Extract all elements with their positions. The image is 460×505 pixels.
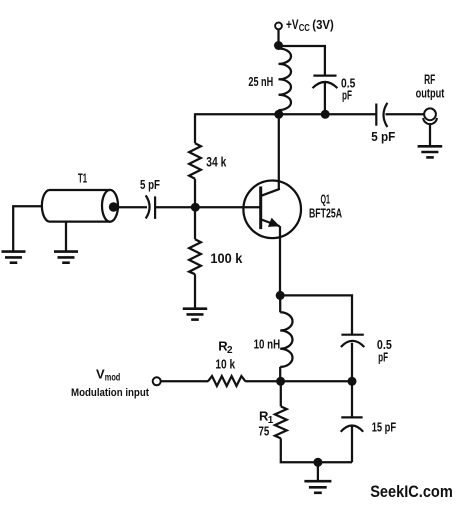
capacitor C2 5 pF (straight plate) xyxy=(154,196,156,219)
wire: base node to transistor base xyxy=(196,206,260,208)
svg-text:V: V xyxy=(96,366,105,381)
wire: T1 bottom shield lead xyxy=(65,222,67,251)
svg-text:5 pF: 5 pF xyxy=(371,129,395,144)
svg-text:5 pF: 5 pF xyxy=(140,178,160,192)
node: base junction dot xyxy=(191,203,200,212)
svg-text:pF: pF xyxy=(378,349,388,364)
ground (below 100 k) xyxy=(183,309,207,320)
capacitor C3 0.5 pF (top plate) xyxy=(341,334,363,336)
svg-text:+V: +V xyxy=(286,16,299,32)
capacitor C4 15 pF (curved plate) xyxy=(341,426,364,432)
capacitor C3 0.5 pF (curved plate) xyxy=(341,341,364,347)
wire: right node to C4 xyxy=(351,381,353,417)
transistor Q1 base bar xyxy=(259,187,262,230)
node: bottom ground junction dot xyxy=(313,458,322,467)
svg-text:75: 75 xyxy=(259,423,270,438)
inductor L2 10 nH xyxy=(280,312,292,367)
svg-text:mod: mod xyxy=(105,373,121,384)
wire: C1 to collector bus xyxy=(324,82,326,114)
resistor 34 k xyxy=(189,143,201,179)
svg-text:10 nH: 10 nH xyxy=(254,336,281,351)
wire: base node down to 100k xyxy=(194,207,196,239)
wire: VCC node to 0.5pF branch (top right corner) xyxy=(279,46,325,76)
svg-text:2: 2 xyxy=(227,345,233,356)
wire: VCC terminal to node xyxy=(277,29,279,43)
wire: ground stub xyxy=(317,462,319,480)
terminal +VCC xyxy=(275,23,282,30)
transistor Q1 BFT25A circle xyxy=(243,181,301,239)
ground (RF output) xyxy=(418,146,443,157)
svg-text:CC: CC xyxy=(299,22,311,34)
wire: modulation node down to R1 xyxy=(280,381,282,406)
wire: R2 to modulation node xyxy=(245,380,280,382)
svg-text:Modulation input: Modulation input xyxy=(71,387,149,399)
svg-text:25 nH: 25 nH xyxy=(248,74,273,89)
svg-text:output: output xyxy=(416,86,445,101)
svg-text:34 k: 34 k xyxy=(206,154,226,169)
capacitor C5 5 pF output (curved plate) xyxy=(384,103,388,127)
svg-text:100 k: 100 k xyxy=(210,251,242,266)
label +VCC (3V) xyxy=(286,16,334,34)
label R2 xyxy=(218,339,233,356)
ground (below T1) xyxy=(54,252,78,263)
wire: emitter node to 10nH xyxy=(279,295,281,312)
node: VCC junction dot xyxy=(274,41,283,50)
svg-text:T1: T1 xyxy=(78,171,87,185)
capacitor C5 5 pF output (straight plate) xyxy=(375,104,377,126)
capacitor C4 15 pF (top plate) xyxy=(341,416,362,418)
resistor R1 75 xyxy=(275,406,287,438)
node: emitter junction dot xyxy=(276,291,285,300)
terminal: modulation input xyxy=(153,377,161,385)
wire: 10nH to Vmod node xyxy=(279,367,281,381)
node: right junction dot xyxy=(348,377,357,386)
label R1 xyxy=(259,409,274,426)
svg-text:pF: pF xyxy=(342,88,352,103)
wire: modulation node to right node xyxy=(281,380,352,382)
capacitor C1 0.5 pF (curved plate) xyxy=(313,82,338,88)
wire: T1 to C2 xyxy=(114,206,148,208)
resistor R2 10 k xyxy=(208,376,245,386)
label Vmod xyxy=(96,366,120,383)
label 0.5 pF (bottom) xyxy=(377,337,392,364)
wire: R1 to bottom rail xyxy=(281,438,352,462)
svg-text:15 pF: 15 pF xyxy=(372,420,396,435)
label RF output xyxy=(416,72,445,101)
wire: C4 to bottom rail xyxy=(351,426,353,462)
wire: top bus horizontal xyxy=(195,113,376,115)
wire: emitter down to node xyxy=(279,226,281,295)
wire: 34k to base node xyxy=(194,179,196,207)
svg-text:Q1: Q1 xyxy=(321,192,331,207)
resonator T1 end ellipse xyxy=(102,190,118,222)
svg-text:BFT25A: BFT25A xyxy=(309,206,342,221)
node: collector bus junction dot xyxy=(274,110,283,119)
wire: C5 to RF connector xyxy=(386,113,425,115)
resonator T1 center conductor dot xyxy=(109,202,118,211)
svg-text:10 k: 10 k xyxy=(215,358,236,372)
capacitor C2 5 pF (curved plate) xyxy=(146,195,150,218)
wire: T1 left lead xyxy=(13,206,43,251)
ground (left of T1) xyxy=(2,252,26,263)
svg-text:SeekIC.com: SeekIC.com xyxy=(370,483,453,501)
capacitor C1 0.5 pF (top plate) xyxy=(313,74,336,76)
wire: emitter node to right branch corner xyxy=(280,295,352,334)
wire: input terminal to R2 xyxy=(161,380,208,382)
label 0.5 pF (top) xyxy=(341,75,355,102)
resonator T1 body xyxy=(42,190,110,222)
wire: RF connector to ground xyxy=(429,124,431,147)
node: C1 bus junction dot xyxy=(321,110,330,119)
terminal: RF output connector cup xyxy=(423,118,437,124)
svg-text:(3V): (3V) xyxy=(312,17,334,32)
wire: 100k to ground xyxy=(194,274,196,308)
node: modulation junction dot xyxy=(276,377,285,386)
terminal: RF output connector circle xyxy=(424,108,436,120)
inductor L1 25 nH xyxy=(279,49,292,111)
wire: collector to top bus xyxy=(278,114,280,189)
ground (bottom) xyxy=(304,481,331,493)
wire: C3 to Vmod node xyxy=(351,343,353,382)
transistor Q1 emitter arrow xyxy=(268,218,280,227)
wire: C2 to base node xyxy=(155,206,195,208)
resistor 100 k xyxy=(189,239,201,274)
transistor Q1 emitter diagonal xyxy=(261,220,279,227)
wire: left bias branch vertical from bus xyxy=(194,113,196,143)
transistor Q1 collector diagonal xyxy=(261,189,280,196)
